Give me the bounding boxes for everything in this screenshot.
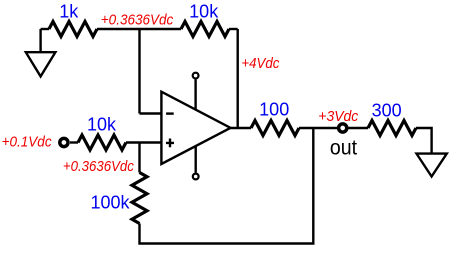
svg-text:10k: 10k [189,1,219,21]
op-amp triangle [161,92,230,164]
svg-text:300: 300 [372,100,402,120]
svg-text:out: out [330,137,357,160]
resistor 10k (input) [78,135,126,150]
op-amp negative supply pin [193,146,199,180]
wire: resistor to non-inverting input [126,141,161,143]
resistor 100k [132,173,147,224]
svg-text:+0.3636Vdc: +0.3636Vdc [101,12,174,29]
resistor 100 [251,121,299,136]
resistor 1k [49,22,97,37]
wire: ground to resistor 1k [41,28,49,30]
wire: terminal to resistor 10k (input) [70,141,78,143]
wire: resistor 1k to node A and to resistor 10k (top) [97,28,181,30]
op-amp minus sign [166,112,174,114]
svg-text:100: 100 [259,100,289,120]
ground GND1 (top-left) [26,29,56,76]
wire: +4Vdc vertical [236,29,238,128]
wire: op-amp output to resistor 100 [231,127,252,129]
svg-text:1k: 1k [59,1,79,21]
wire: node A down to inverting input [138,29,140,114]
wire: node B down to resistor 100k [138,143,140,173]
op-amp plus sign [166,139,174,148]
input terminal circle [60,138,68,146]
svg-text:+3Vdc: +3Vdc [318,108,358,125]
svg-text:+0.1Vdc: +0.1Vdc [2,134,52,151]
resistor 300 [368,121,416,136]
svg-text:10k: 10k [87,115,117,135]
svg-text:+0.3636Vdc: +0.3636Vdc [63,158,134,175]
wire: inverting input [140,112,162,114]
svg-text:+4Vdc: +4Vdc [241,55,279,72]
wire: resistor 10k to corner [229,28,238,30]
ground GND2 (right) [417,154,447,177]
wire: resistor 100 to out terminal [299,127,337,129]
out terminal circle [339,124,347,132]
svg-text:100k: 100k [90,193,130,213]
wire: resistor 300 to ground [416,128,432,154]
wire: out terminal to resistor 300 [348,127,368,129]
resistor 10k (top) [181,22,229,37]
op-amp positive supply pin [193,73,199,110]
wire: resistor 100k to bottom feedback and up to output node [140,128,314,244]
